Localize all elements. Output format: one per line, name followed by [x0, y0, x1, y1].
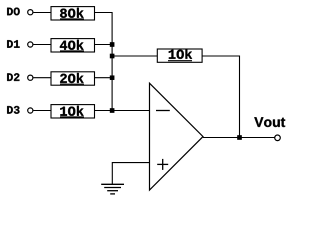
wire D0 terminal to R1	[33, 12, 51, 14]
node D1 label	[7, 40, 19, 48]
junction dot D2/bus	[110, 76, 114, 80]
op-amp plus sign	[157, 159, 168, 170]
wire D2 terminal to R3	[33, 77, 51, 79]
wire non-inverting input to ground	[112, 163, 149, 185]
wire R3 to bus	[95, 77, 113, 79]
resistor R2 40k	[51, 39, 95, 52]
junction dot output/feedback	[237, 135, 241, 139]
terminal Vout	[275, 135, 281, 141]
node D2 label	[7, 73, 19, 81]
terminal D2	[28, 75, 33, 80]
wire D3 terminal to R4	[33, 110, 51, 112]
resistor R4 10k	[51, 105, 95, 118]
wire R2 to bus	[95, 44, 113, 46]
terminal D0	[28, 10, 33, 15]
op-amp U1	[150, 83, 204, 190]
wire feedback branch from bus	[112, 55, 157, 57]
op-amp minus sign	[156, 110, 170, 112]
terminal D3	[28, 108, 33, 113]
resistor R3 20k	[51, 72, 95, 85]
node D3 label	[7, 106, 19, 114]
wire bus segment D2 to D3	[111, 78, 113, 111]
wire op-amp output to Vout	[203, 137, 275, 139]
node D0 label	[7, 8, 20, 16]
resistor R5 10k feedback	[157, 49, 202, 62]
wire bus segment D1 to D2	[111, 45, 113, 78]
wire R1 to bus with corner down	[95, 13, 113, 45]
wire R5 to output node with corner down	[202, 56, 239, 138]
junction dot feedback/bus	[110, 54, 114, 58]
junction dot D1/bus	[110, 42, 114, 46]
ground	[101, 184, 124, 194]
junction dot D3/bus	[110, 108, 114, 112]
resistor R1 80k	[51, 7, 95, 20]
wire R4 to op-amp inverting input	[95, 110, 150, 112]
terminal D1	[28, 42, 33, 47]
wire D1 terminal to R2	[33, 44, 51, 46]
node Vout label	[254, 117, 285, 127]
